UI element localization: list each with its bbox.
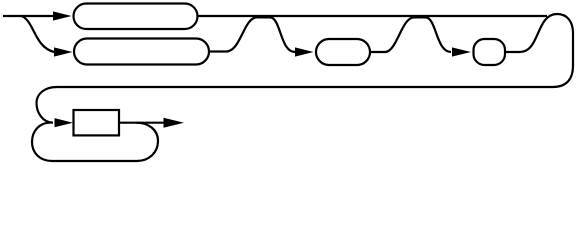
arrowhead into box B1	[55, 118, 74, 127]
wire skip line (main rail)	[198, 15, 548, 17]
wire repeat loop under box B1	[32, 123, 158, 161]
circle E1	[474, 39, 506, 65]
terminal capsule T2	[74, 39, 209, 65]
wire wrap-around from E1 exit over right corner down to return rail	[57, 14, 573, 87]
terminal capsule T3	[316, 39, 370, 65]
arrowhead end of diagram	[164, 118, 185, 128]
wire start line	[3, 15, 53, 17]
non-terminal box B1	[74, 110, 120, 135]
arrowhead into terminal T2	[54, 47, 73, 56]
wire dome from T3 exit over to circle E1 entry	[370, 17, 451, 52]
arrowhead into terminal T3	[295, 47, 314, 56]
arrowhead into circle E1	[452, 47, 471, 56]
wire left wrap corner down to second row	[37, 87, 58, 123]
terminal capsule T1	[74, 4, 198, 30]
arrowhead into terminal T1	[53, 11, 72, 20]
wire branch split down to T2	[21, 16, 54, 52]
wire dome from T2 exit over to T3 entry	[209, 17, 295, 52]
wire B1 exit line	[119, 122, 164, 124]
